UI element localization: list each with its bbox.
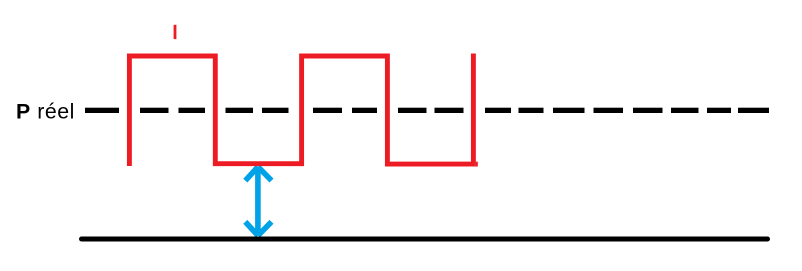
baseline (zero power line): [82, 237, 768, 242]
double arrow (amplitude) shaft: [255, 169, 261, 236]
double arrow top head: [245, 167, 258, 181]
square wave I: [129, 54, 473, 167]
label I (current): [174, 25, 177, 39]
square wave I low-segment end overhang: [476, 162, 478, 167]
svg-text:P réel: P réel: [16, 100, 75, 124]
double arrow bottom head: [245, 222, 258, 236]
dashed line P réel (zero reference): [85, 108, 769, 113]
